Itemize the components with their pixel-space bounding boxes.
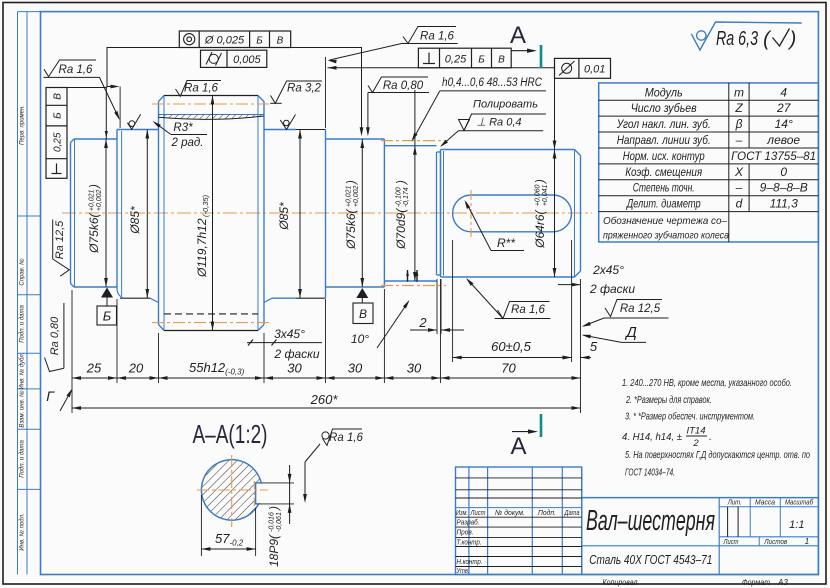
svg-text:2 рад.: 2 рад. [171, 137, 204, 149]
shaft section Ø85 right [264, 129, 296, 131]
svg-text:Копировал: Копировал [603, 578, 638, 587]
svg-text:0,005: 0,005 [233, 54, 261, 66]
svg-text:2: 2 [692, 438, 699, 449]
svg-text:А: А [510, 433, 526, 460]
tolerance frame 0.01 [555, 58, 611, 78]
svg-text:3. * *Размер обеспеч. инструм: 3. * *Размер обеспеч. инструментом. [625, 411, 755, 423]
svg-text:Б: Б [256, 36, 263, 47]
svg-text:70: 70 [501, 361, 516, 376]
svg-text:ГОСТ 14034–74.: ГОСТ 14034–74. [625, 467, 675, 479]
svg-text:): ) [788, 29, 797, 51]
roughness Ra 1.6 top right [403, 27, 456, 44]
svg-text:260*: 260* [310, 392, 339, 407]
svg-text:Лит.: Лит. [727, 498, 742, 507]
svg-text:В: В [359, 307, 367, 321]
svg-text:Лист: Лист [470, 508, 486, 517]
svg-text:Число зубьев: Число зубьев [631, 101, 697, 115]
svg-text:0,01: 0,01 [584, 64, 605, 76]
svg-text:(-0,35): (-0,35) [201, 194, 210, 217]
svg-text:Масса: Масса [755, 498, 775, 507]
shaft section Ø75k6 left [74, 138, 117, 140]
svg-text:Инв. № дубл.: Инв. № дубл. [19, 353, 26, 390]
svg-text:Ø64r6(: Ø64r6( [533, 208, 547, 248]
svg-text:Ra 1,6: Ra 1,6 [420, 31, 454, 43]
svg-text:Ra 1,6: Ra 1,6 [184, 83, 218, 95]
svg-text:-0,174: -0,174 [403, 187, 410, 207]
datum flag В [356, 288, 368, 298]
hardened zone line bottom [381, 285, 446, 287]
svg-text:1:1: 1:1 [789, 519, 804, 531]
svg-text:Лист: Лист [723, 537, 739, 546]
leader runout left branch [107, 48, 179, 87]
roughness Ra 3.2 gear chamfer [270, 102, 282, 104]
machining mark right step [280, 115, 295, 130]
svg-text:2. *Размеры для справок.: 2. *Размеры для справок. [625, 394, 712, 406]
svg-text:В: В [53, 93, 64, 100]
section A-A circle [201, 460, 261, 521]
svg-text:-0,100: -0,100 [396, 187, 403, 207]
roughness Ra 1.6 gear [176, 81, 222, 97]
relief groove 2mm [436, 152, 438, 275]
dimension 260 overall [72, 407, 581, 409]
dimension Ø85 right [299, 130, 301, 299]
svg-text:Ra 12,5: Ra 12,5 [620, 303, 661, 315]
svg-text:Б: Б [53, 112, 64, 119]
dimension chain 25 20 55h12 30 30 30 70 [72, 377, 581, 379]
svg-text:Разраб.: Разраб. [457, 518, 480, 527]
svg-text:+0,021: +0,021 [346, 185, 353, 207]
svg-text:Угол накл. лин. зуб.: Угол накл. лин. зуб. [616, 117, 711, 131]
svg-text:⊥ Ra 0,4: ⊥ Ra 0,4 [476, 117, 521, 129]
svg-text:Формат: Формат [742, 578, 770, 587]
svg-text:ГОСТ 13755–81: ГОСТ 13755–81 [731, 149, 816, 163]
svg-text:-0,016: -0,016 [269, 512, 276, 532]
svg-text:–: – [735, 181, 743, 195]
svg-text:В: В [277, 36, 284, 47]
svg-text:Подп. и дата: Подп. и дата [20, 440, 26, 478]
svg-text:27: 27 [776, 101, 792, 115]
keyway slot [453, 195, 572, 232]
svg-text:Ø85*: Ø85* [128, 206, 142, 235]
svg-text:h0,4...0,6 48...53 HRC: h0,4...0,6 48...53 HRC [442, 77, 543, 89]
svg-text:В: В [498, 55, 505, 66]
svg-text:2 фаски: 2 фаски [273, 347, 319, 361]
svg-text:5. На поверхностях Г,Д допуск: 5. На поверхностях Г,Д допускаются центр… [625, 449, 810, 461]
gear tooth pitch line top [152, 103, 270, 105]
svg-text:Норм. исх. контур: Норм. исх. контур [623, 149, 705, 163]
svg-text:d: d [736, 197, 743, 211]
svg-text:Ra 0,80: Ra 0,80 [49, 316, 61, 355]
svg-text:Дата: Дата [564, 508, 580, 517]
dimension 57 [200, 495, 202, 556]
svg-text:Вал–шестерня: Вал–шестерня [586, 505, 715, 537]
svg-text:А–А(1:2): А–А(1:2) [193, 419, 268, 449]
svg-text:Z: Z [734, 101, 743, 115]
svg-text:Направл. линии зуб.: Направл. линии зуб. [617, 133, 711, 147]
svg-text:2 фаски: 2 фаски [589, 282, 635, 296]
svg-text:60±0,5: 60±0,5 [491, 339, 531, 354]
svg-text:Утв.: Утв. [456, 566, 470, 575]
svg-text:Изм.: Изм. [456, 508, 468, 517]
chamfer note 2x45 right end [558, 284, 580, 286]
dimension Ø119.7h12 [212, 96, 214, 331]
dimension Ø75k6 left [105, 87, 107, 140]
svg-text:Ra 3,2: Ra 3,2 [287, 83, 321, 95]
shaft section Ø85 left [117, 129, 159, 131]
gear root line top [159, 114, 265, 116]
svg-text:Сталь 40Х ГОСТ 4543–71: Сталь 40Х ГОСТ 4543–71 [589, 552, 712, 567]
svg-text:IT14: IT14 [686, 426, 705, 437]
shaft centerline [62, 212, 592, 214]
svg-text:20: 20 [128, 361, 144, 376]
dimension Ø85 left [146, 130, 148, 299]
extension lines for length dimensions [71, 290, 73, 413]
extension line step left [119, 87, 121, 129]
dimension Ø70d9 [414, 90, 416, 146]
dimension 18P9 [289, 465, 291, 524]
general roughness Ra 6.3 corner [691, 22, 801, 50]
svg-text:Полировать: Полировать [473, 99, 538, 111]
svg-text:Подп. и дата: Подп. и дата [20, 305, 26, 343]
svg-text:Н.контр.: Н.контр. [457, 557, 483, 566]
roughness Ra 0.80 left rotated [63, 303, 65, 368]
roughness Ra 1.6 top left [44, 60, 96, 77]
svg-text:Ra 1,6: Ra 1,6 [329, 432, 363, 444]
chamfer note 3x45 2 фаски [247, 342, 322, 344]
svg-text:4: 4 [780, 85, 787, 99]
svg-text:+0,060: +0,060 [535, 184, 542, 206]
left margin columns [17, 12, 19, 575]
svg-text:30: 30 [407, 361, 422, 376]
section A-A centerlines [197, 489, 268, 491]
svg-text:Б: Б [103, 309, 112, 324]
svg-text:Ø75k6(: Ø75k6( [87, 211, 101, 253]
extension line step right [325, 57, 327, 128]
svg-text:.: . [709, 431, 712, 443]
svg-text:Т.контр.: Т.контр. [457, 537, 482, 546]
roughness Ra 1.6 keyway bottom [498, 302, 550, 319]
section mark A bottom [540, 414, 543, 437]
svg-text:Ø 0,025: Ø 0,025 [204, 35, 245, 47]
svg-text:1: 1 [805, 537, 809, 546]
svg-text:+0,002: +0,002 [96, 189, 103, 211]
svg-text:Коэф. смещения: Коэф. смещения [625, 165, 702, 179]
svg-text:№ докум.: № докум. [495, 508, 525, 517]
svg-text:пряженного зубчатого колеса: пряженного зубчатого колеса [603, 230, 729, 242]
leader 0.01 [328, 67, 555, 69]
svg-text:25: 25 [86, 361, 102, 376]
svg-text:R**: R** [497, 236, 515, 250]
svg-text:10°: 10° [351, 332, 369, 346]
svg-text:Степень точн.: Степень точн. [633, 181, 695, 195]
svg-text:3х45°: 3х45° [274, 327, 305, 341]
svg-text:5: 5 [590, 339, 598, 354]
tolerance frame perpendicularity 0.25 top [418, 48, 511, 68]
svg-text:0,25: 0,25 [53, 132, 64, 152]
svg-text:Ra 1,6: Ra 1,6 [59, 64, 93, 76]
svg-text:X: X [734, 165, 744, 179]
gear section Ø119.7 [164, 95, 258, 97]
svg-text:Ra 0,80: Ra 0,80 [383, 80, 424, 92]
svg-text:2: 2 [418, 315, 427, 330]
svg-text:R3*: R3* [173, 122, 193, 134]
svg-text:Масштаб: Масштаб [785, 498, 814, 507]
svg-text:Ø70d9(: Ø70d9( [394, 207, 408, 250]
title block [456, 467, 582, 575]
shaft section Ø75k6 right [326, 138, 385, 140]
svg-text:Ra 1,6: Ra 1,6 [511, 304, 545, 316]
svg-text:18P9(: 18P9( [267, 533, 281, 567]
svg-text:β: β [735, 117, 743, 131]
dimension 60±0.5 keyway [453, 357, 572, 359]
svg-text:Ra 12,5: Ra 12,5 [54, 220, 66, 259]
svg-text:4. Н14, h14, ±: 4. Н14, h14, ± [622, 431, 682, 443]
svg-text:Модуль: Модуль [645, 85, 683, 99]
gear pitch line bottom [152, 322, 270, 324]
keyway slot centerline vertical [470, 190, 472, 237]
gear parameter table [599, 83, 819, 242]
svg-text:30: 30 [348, 361, 363, 376]
svg-text:Обозначение чертежа со–: Обозначение чертежа со– [603, 215, 727, 227]
svg-text:Листов: Листов [763, 537, 787, 546]
section mark A top [540, 45, 543, 68]
svg-text:Ø119,7h12: Ø119,7h12 [195, 218, 209, 278]
svg-text:Взам. инв. №: Взам. инв. № [19, 390, 26, 428]
roughness Ra 12.5 right [605, 300, 662, 317]
svg-text:0: 0 [780, 165, 787, 179]
gear root line bottom hidden [164, 313, 258, 315]
svg-text:-0,061: -0,061 [276, 512, 283, 532]
svg-text:Перв. примен.: Перв. примен. [20, 105, 26, 145]
svg-text:111,3: 111,3 [770, 197, 799, 211]
svg-text:Д: Д [624, 324, 637, 341]
svg-text:Б: Б [478, 55, 485, 66]
tolerance frame cylindricity 0.005 [201, 50, 267, 67]
tolerance frame runout 0.025 [179, 31, 290, 48]
hardened zone line top [381, 140, 446, 142]
svg-text:Делит. диаметр: Делит. диаметр [625, 197, 701, 211]
machining mark left step [127, 114, 140, 129]
dimension Ø75k6 right [361, 139, 363, 287]
dimension 2 groove [410, 329, 437, 331]
svg-text:А: А [510, 22, 526, 49]
roughness Ra 1.6 section A-A [322, 432, 329, 439]
svg-text:Инв. № подл.: Инв. № подл. [19, 513, 26, 550]
svg-text:m: m [734, 85, 744, 99]
shaft section Ø70d9 [384, 145, 436, 147]
svg-text:1. 240...270 НВ, кроме места,: 1. 240...270 НВ, кроме места, указанного… [622, 377, 792, 389]
svg-text:А3: А3 [777, 578, 788, 587]
svg-text:+0,002: +0,002 [353, 185, 360, 207]
dimension Ø64r6 [554, 78, 556, 149]
svg-text:Пров.: Пров. [457, 528, 474, 537]
datum flag Б [101, 288, 113, 298]
gear tooth band hatch [159, 115, 265, 120]
svg-text:+0,021: +0,021 [89, 189, 96, 211]
keyway width extension lines [261, 482, 294, 484]
roughness Ra 12.5 left rotated [52, 220, 54, 260]
svg-text:–: – [735, 133, 743, 147]
svg-text:9–8–8–В: 9–8–8–В [760, 181, 808, 195]
svg-text:левое: левое [766, 133, 800, 147]
svg-text:2х45°: 2х45° [592, 263, 624, 277]
svg-text:Подп.: Подп. [538, 508, 556, 517]
svg-text:30: 30 [287, 361, 302, 376]
svg-text:0,25: 0,25 [445, 54, 467, 66]
perpendicularity frame rotated [46, 88, 67, 179]
svg-text:14°: 14° [775, 117, 793, 131]
shaft keyway section Ø64r6 [441, 149, 575, 151]
svg-text:Ø75k6(: Ø75k6( [344, 207, 358, 249]
svg-text:Ra 6,3: Ra 6,3 [716, 28, 758, 50]
leader runout right branch [291, 48, 362, 134]
dimension 5 [560, 357, 572, 359]
svg-text:Ø85*: Ø85* [277, 202, 291, 231]
roughness Ra 0.80 mid [368, 77, 428, 93]
svg-text:Справ. №: Справ. № [19, 258, 26, 286]
svg-text:+0,041: +0,041 [542, 184, 549, 206]
